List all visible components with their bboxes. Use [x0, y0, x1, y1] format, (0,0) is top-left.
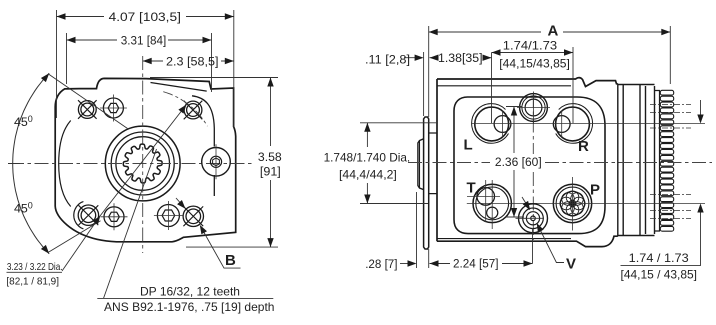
- port L: [475, 107, 509, 141]
- dimension 1.38[35]: [491, 53, 493, 124]
- top face chamfer line: [151, 83, 207, 92]
- side port circle right: [202, 148, 231, 177]
- svg-text:DP 16/32, 12 teeth: DP 16/32, 12 teeth: [140, 285, 240, 299]
- svg-text:T: T: [467, 180, 476, 197]
- svg-text:V: V: [566, 255, 576, 272]
- dimension 1.74 / 1.73 right side: [700, 100, 702, 265]
- dimension 3.31 [84]: [67, 33, 212, 92]
- svg-text:B: B: [225, 252, 236, 269]
- port P: [553, 184, 591, 222]
- port R: [556, 107, 590, 141]
- L/R horizontal centerline + dim extension: [472, 123, 705, 125]
- svg-text:2.24 [57]: 2.24 [57]: [453, 257, 499, 271]
- pilot boss lip: [418, 139, 424, 190]
- svg-text:A: A: [548, 23, 559, 40]
- body cylinder silhouette arc at left: [59, 121, 71, 207]
- 45 degree dimension arc: [13, 73, 50, 254]
- hex plug hole bottom-right: [157, 205, 179, 227]
- horizontal centerline of left view: [10, 163, 253, 165]
- dimension 3.58 [91]: [150, 78, 278, 248]
- svg-text:3.31 [84]: 3.31 [84]: [121, 34, 166, 48]
- spline note leader: [104, 149, 157, 298]
- svg-text:.28 [7]: .28 [7]: [365, 257, 397, 271]
- svg-text:1.74/1.73: 1.74/1.73: [503, 39, 558, 53]
- leader and label B: [202, 228, 241, 268]
- bolt circle arc segment at top-right hole: [163, 92, 207, 127]
- svg-text:3.58: 3.58: [258, 150, 282, 164]
- dimension 1.748/1.740 Dia.: [360, 123, 437, 204]
- bolt hole X top-right: [187, 104, 200, 117]
- right view: mounting flange plate: [424, 117, 429, 249]
- right view main body outline: [437, 78, 618, 247]
- dimension 2.24 [57]: [532, 228, 534, 264]
- small leader arrow at V upper-left: [522, 197, 529, 209]
- dimension 2.36 [60] vertical: [506, 107, 524, 218]
- leader and label V: [538, 226, 564, 263]
- body chamfer lines top/bottom: [437, 86, 571, 239]
- tick at arc centerline crossing: [8, 163, 20, 165]
- boss arc at bottom-left bolt hole: [74, 202, 84, 229]
- svg-text:1.74 / 1.73: 1.74 / 1.73: [629, 251, 689, 265]
- svg-text:[44,15 / 43,85]: [44,15 / 43,85]: [621, 268, 698, 282]
- boss circle inner: [116, 137, 170, 191]
- bolt hole X bottom-left: [81, 208, 96, 223]
- boss circle middle: [111, 132, 174, 195]
- knurl centerline ticks: [650, 104, 691, 218]
- port face plate: [454, 97, 605, 234]
- svg-text:4.07 [103,5]: 4.07 [103,5]: [109, 10, 181, 24]
- 45 degree radial line top: [49, 74, 128, 128]
- P/T row dim extension line: [467, 202, 705, 204]
- spline note shelf: [97, 297, 273, 299]
- long leader to top-right bolt hole: [100, 105, 187, 217]
- svg-text:1.38[35]: 1.38[35]: [438, 51, 483, 65]
- bolt hole X bottom-right: [186, 209, 201, 224]
- svg-text:2.3 [58,5]: 2.3 [58,5]: [166, 54, 219, 68]
- radial arrow at bottom-right hole: [176, 198, 184, 207]
- port V: [519, 204, 548, 233]
- svg-text:ANS B92.1-1976, .75 [19] depth: ANS B92.1-1976, .75 [19] depth: [104, 300, 275, 314]
- left view housing outline: [55, 78, 236, 241]
- splined bore (12 teeth): [123, 144, 162, 183]
- svg-text:1.748/1.740 Dia.: 1.748/1.740 Dia.: [324, 151, 411, 165]
- dimension .28 [7]: [417, 192, 429, 268]
- hex plug hole top-left: [103, 98, 123, 118]
- boss circle outer: [105, 126, 180, 201]
- svg-text:P: P: [590, 182, 600, 199]
- leader from label to lower hex hole: [62, 217, 100, 272]
- corner boss arc top-right: [192, 96, 214, 196]
- dimension 1.74/1.73 top: [572, 47, 574, 123]
- dimension A: [429, 26, 671, 117]
- gauge port top center: [520, 94, 548, 122]
- gerotor section plates: [618, 84, 655, 236]
- horizontal centerline right view: [408, 162, 712, 164]
- knurled retaining ring: [660, 90, 673, 95]
- dimension .11 [2,8]: [423, 52, 425, 116]
- port T: [473, 184, 511, 222]
- svg-text:3.23 / 3.22 Dia.: 3.23 / 3.22 Dia.: [7, 262, 63, 273]
- neck lines between flange and body: [429, 133, 437, 194]
- svg-text:L: L: [464, 136, 473, 153]
- vertical centerline right view: [532, 94, 534, 240]
- 45 degree radial line bottom: [48, 221, 101, 253]
- hex plug hole bottom-left: [104, 207, 124, 227]
- svg-text:[44,4/44,2]: [44,4/44,2]: [339, 168, 397, 182]
- vertical centerline of left view: [142, 56, 144, 253]
- svg-text:R: R: [578, 138, 589, 155]
- dimension 4.07 [103,5]: [57, 10, 234, 128]
- dimension 2.3 [58,5]: [143, 60, 234, 62]
- svg-text:[91]: [91]: [260, 164, 281, 178]
- bolt hole X top-left: [81, 103, 94, 116]
- svg-text:[44,15/43,85]: [44,15/43,85]: [499, 57, 570, 71]
- svg-text:.11 [2,8]: .11 [2,8]: [365, 53, 410, 67]
- svg-text:[82,1 / 81,9]: [82,1 / 81,9]: [6, 277, 59, 288]
- svg-text:2.36 [60]: 2.36 [60]: [495, 155, 542, 169]
